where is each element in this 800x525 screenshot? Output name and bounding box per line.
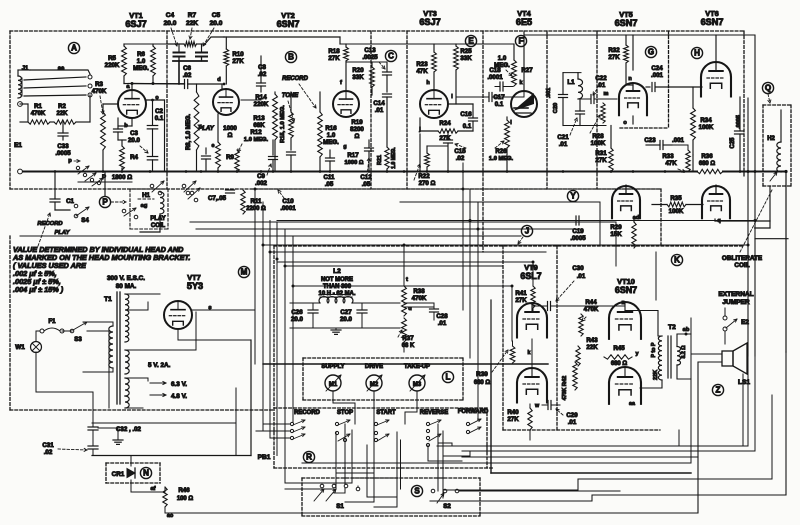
svg-text:PLAY: PLAY xyxy=(198,126,214,132)
node J xyxy=(521,225,532,236)
svg-text:C11: C11 xyxy=(324,174,336,181)
wire heavy common lower xyxy=(490,364,492,473)
svg-text:6.3 V.: 6.3 V. xyxy=(171,381,187,388)
svg-text:R17: R17 xyxy=(347,152,359,159)
tube VT7 xyxy=(164,301,192,329)
svg-text:27K: 27K xyxy=(507,416,519,423)
svg-text:FORWARD: FORWARD xyxy=(458,409,489,415)
rectifier CR1 dashed box xyxy=(106,462,160,464)
wire VT5b VT6b plates xyxy=(625,185,627,193)
svg-text:TAKE-UP: TAKE-UP xyxy=(404,364,430,370)
wire mid bus 6 xyxy=(20,235,521,237)
svg-text:C9: C9 xyxy=(257,173,265,180)
svg-text:R36: R36 xyxy=(701,153,713,160)
svg-text:27K: 27K xyxy=(439,135,451,142)
svg-text:H1: H1 xyxy=(142,192,150,199)
start contacts xyxy=(374,422,377,425)
svg-text:k: k xyxy=(528,350,531,356)
T1 4.8V winding xyxy=(125,396,129,408)
tube VT10 lower xyxy=(609,367,641,404)
wire VT7 plate leads xyxy=(126,293,160,295)
svg-text:C33: C33 xyxy=(57,143,69,150)
svg-text:C23: C23 xyxy=(644,137,656,144)
wire mid bus 8 xyxy=(270,251,546,253)
svg-text:470K: 470K xyxy=(31,111,46,117)
wire head top to contact xyxy=(18,69,30,71)
svg-text:W1: W1 xyxy=(15,344,25,351)
bottom wire 463 xyxy=(302,462,691,464)
svg-text:.01: .01 xyxy=(438,320,447,327)
svg-text:t: t xyxy=(406,277,408,283)
wire main ground bus heavy xyxy=(21,171,697,173)
svg-text:R7: R7 xyxy=(188,12,197,19)
svg-text:E: E xyxy=(468,37,474,46)
svg-text:L2: L2 xyxy=(333,268,341,275)
svg-text:i: i xyxy=(451,94,453,100)
svg-text:G: G xyxy=(648,48,654,57)
svg-text:T2: T2 xyxy=(668,324,676,331)
svg-text:.01: .01 xyxy=(597,82,606,89)
wire W1 bottom to C31 node xyxy=(36,391,93,393)
svg-text:C26: C26 xyxy=(291,309,303,316)
svg-text:C5: C5 xyxy=(212,12,221,19)
dashed box S section xyxy=(302,477,480,479)
svg-text:33K: 33K xyxy=(460,55,472,62)
svg-text:.0005: .0005 xyxy=(736,115,742,129)
wire T2 secondary leads xyxy=(677,334,691,347)
choke L2 coil xyxy=(319,297,353,303)
svg-text:C29: C29 xyxy=(566,412,578,419)
svg-text:NOT MORE: NOT MORE xyxy=(321,277,353,283)
svg-text:COIL: COIL xyxy=(151,223,166,229)
lamp W1 xyxy=(31,342,42,353)
dashed divider section A right xyxy=(166,31,168,189)
svg-text:8200: 8200 xyxy=(350,126,364,133)
svg-text:27K: 27K xyxy=(595,157,607,164)
node A xyxy=(68,42,79,53)
wire heater drop xyxy=(92,422,236,424)
wire bus to node P xyxy=(104,172,106,197)
node M xyxy=(238,266,249,277)
svg-text:N: N xyxy=(143,469,149,478)
node F xyxy=(515,35,526,46)
svg-text:R14: R14 xyxy=(255,94,267,101)
wire line cord xyxy=(35,331,37,341)
bottom wire 501 to 495 xyxy=(430,495,786,501)
svg-text:27K: 27K xyxy=(608,54,620,61)
svg-text:f: f xyxy=(340,80,342,86)
svg-text:R23: R23 xyxy=(416,61,428,68)
svg-text:.01: .01 xyxy=(559,141,568,148)
svg-text:27K: 27K xyxy=(328,55,340,62)
svg-text:R1: R1 xyxy=(34,104,42,110)
svg-text:ac: ac xyxy=(167,513,174,519)
wire right vertical bundle xyxy=(615,222,617,266)
svg-text:OBLITERATE: OBLITERATE xyxy=(722,255,762,262)
dashed K left edge xyxy=(502,246,504,430)
wire mid bus 10 xyxy=(285,265,503,267)
svg-text:0.1: 0.1 xyxy=(495,101,504,108)
svg-text:THAN 300: THAN 300 xyxy=(323,284,352,290)
capacitor at VT1 cathode xyxy=(114,128,123,130)
svg-text:g: g xyxy=(343,144,346,150)
wire T2 primary leads xyxy=(625,311,662,337)
dashed vertical M divider xyxy=(273,246,275,468)
svg-text:80 MA.: 80 MA. xyxy=(116,283,137,290)
svg-text:F: F xyxy=(519,37,524,46)
wire VT7 outputs xyxy=(178,329,251,340)
wire R1 R2 node xyxy=(20,103,28,105)
dashed divider E/F xyxy=(546,31,548,189)
svg-text:5 V. 2A.: 5 V. 2A. xyxy=(148,362,171,369)
leader obliterate to H2 xyxy=(740,190,772,252)
svg-text:R11: R11 xyxy=(251,198,263,205)
node S xyxy=(411,485,422,496)
wire plate rail to C6 xyxy=(124,83,185,85)
svg-text:1.0: 1.0 xyxy=(327,132,336,139)
S1 contact wires xyxy=(333,489,335,493)
svg-text:20.0: 20.0 xyxy=(340,316,353,323)
switch contacts below bus pair2 xyxy=(182,184,186,188)
svg-text:.0005: .0005 xyxy=(570,235,586,242)
node Z xyxy=(712,384,723,395)
svg-text:C10: C10 xyxy=(282,198,294,205)
wire mid bus 1 xyxy=(255,188,660,190)
label 6.3V arrow xyxy=(150,382,166,384)
wire mid bus 3 xyxy=(277,220,755,222)
svg-text:C27: C27 xyxy=(340,309,352,316)
svg-text:470K: 470K xyxy=(92,88,107,95)
svg-text:n: n xyxy=(628,76,632,82)
play coil dashed box xyxy=(130,188,168,190)
node Y xyxy=(567,190,578,201)
svg-text:JUMPER: JUMPER xyxy=(722,299,750,306)
capacitor C4 electrolytic xyxy=(178,44,180,51)
dashed K inner divider xyxy=(556,246,558,430)
svg-text:af: af xyxy=(150,486,155,492)
svg-text:TONE: TONE xyxy=(282,93,299,99)
wire L1 box top xyxy=(563,72,581,74)
wire VT4 plate top xyxy=(523,31,525,91)
svg-text:START: START xyxy=(376,410,396,416)
svg-text:1000: 1000 xyxy=(223,125,237,132)
svg-text:220K: 220K xyxy=(105,62,120,69)
svg-text:C21: C21 xyxy=(557,134,569,141)
svg-text:27K: 27K xyxy=(232,58,244,65)
svg-text:6SN7: 6SN7 xyxy=(615,285,637,295)
enclosure dashed bottom edge xyxy=(10,188,660,190)
svg-text:COIL: COIL xyxy=(734,262,749,269)
tube VT10 upper xyxy=(609,302,641,339)
svg-text:5Y3: 5Y3 xyxy=(187,281,203,291)
tube VT6 second half xyxy=(702,186,730,218)
dashed bottom power box xyxy=(10,409,274,411)
wire heavy feedback line xyxy=(263,363,548,365)
svg-text:R3: R3 xyxy=(95,81,103,88)
wire R46 bottom long xyxy=(164,507,166,513)
dashed box motors xyxy=(303,357,463,359)
svg-text:S: S xyxy=(414,487,420,496)
head switch contacts xyxy=(88,75,92,79)
svg-text:.0005: .0005 xyxy=(55,150,71,157)
svg-text:470K: 470K xyxy=(562,387,568,400)
svg-text:100K: 100K xyxy=(699,124,714,131)
resistor R16 record pot xyxy=(318,112,323,157)
svg-text:C22: C22 xyxy=(595,75,607,82)
svg-text:68K: 68K xyxy=(253,122,265,129)
leader note to C1 xyxy=(38,213,50,246)
svg-text:R10: R10 xyxy=(232,51,244,58)
svg-text:R: R xyxy=(306,453,312,462)
tube VT5 second half xyxy=(612,186,640,218)
svg-text:R16: R16 xyxy=(325,125,337,132)
node C xyxy=(385,50,396,61)
svg-text:CR1: CR1 xyxy=(112,471,125,478)
svg-text:C15: C15 xyxy=(454,148,466,155)
label 4.8V arrow xyxy=(150,394,166,396)
svg-text:.0025: .0025 xyxy=(362,54,378,61)
enclosure dashed left edge xyxy=(9,31,11,189)
svg-text:J1: J1 xyxy=(22,66,29,72)
capacitor C23 leads xyxy=(672,144,688,146)
svg-text:1.0 MEG.: 1.0 MEG. xyxy=(489,156,514,162)
svg-text:22K: 22K xyxy=(586,344,598,351)
dashed K bottom xyxy=(503,429,660,431)
wire rail to VT2 xyxy=(224,36,340,38)
svg-text:22K: 22K xyxy=(653,370,659,380)
svg-text:C31: C31 xyxy=(42,442,54,449)
tube VT2 first half xyxy=(213,89,239,115)
svg-text:Q: Q xyxy=(765,84,771,93)
svg-text:F1: F1 xyxy=(48,318,56,325)
svg-text:m: m xyxy=(604,91,609,97)
forward contacts xyxy=(466,422,469,425)
wire VT1 screen right xyxy=(152,76,154,84)
svg-text:K: K xyxy=(674,256,680,265)
wire speaker right xyxy=(742,374,744,446)
wire C6 to VT2 grid d xyxy=(188,83,222,85)
wire main ground bus heavy right xyxy=(723,171,786,173)
svg-text:ab: ab xyxy=(683,327,690,333)
bottom wire 490 to 479 xyxy=(444,479,772,490)
svg-text:d: d xyxy=(217,77,221,83)
node P xyxy=(99,196,110,207)
wire tie down to C6 xyxy=(178,61,180,84)
svg-text:J: J xyxy=(525,227,529,236)
node N xyxy=(140,467,151,478)
svg-text:C: C xyxy=(388,52,394,61)
svg-text:Y: Y xyxy=(570,192,576,201)
dashed divider F/G xyxy=(596,31,598,189)
svg-text:20.0: 20.0 xyxy=(164,20,177,27)
svg-text:.05: .05 xyxy=(362,181,371,188)
svg-text:20.0: 20.0 xyxy=(128,137,141,144)
wire into S1 xyxy=(285,488,315,490)
svg-text:Z: Z xyxy=(716,386,721,395)
node E xyxy=(465,35,476,46)
svg-text:aa: aa xyxy=(629,401,635,407)
svg-text:6SN7: 6SN7 xyxy=(701,17,724,27)
tube VT6 first half xyxy=(701,62,731,97)
svg-text:S4: S4 xyxy=(81,217,89,224)
svg-text:100 Ω: 100 Ω xyxy=(177,496,194,502)
diode CR1 xyxy=(127,469,135,478)
svg-text:C25: C25 xyxy=(730,137,736,149)
svg-text:o: o xyxy=(623,120,627,126)
capacitor C32 .02 xyxy=(88,426,98,428)
svg-text:R42: R42 xyxy=(562,376,568,387)
svg-text:M: M xyxy=(241,268,248,277)
node G xyxy=(645,46,656,57)
svg-text:R2: R2 xyxy=(58,104,66,110)
capacitor bypass near R9 xyxy=(205,148,207,154)
node R xyxy=(303,451,314,462)
svg-text:C16: C16 xyxy=(460,111,472,118)
svg-text:PLAY: PLAY xyxy=(54,230,70,236)
wire mid bus 9 xyxy=(277,261,533,263)
svg-text:R32: R32 xyxy=(608,47,620,54)
svg-text:S2: S2 xyxy=(443,503,451,510)
svg-text:MEG.: MEG. xyxy=(133,65,149,72)
wire node R18 bottom xyxy=(346,61,387,63)
svg-text:L1: L1 xyxy=(567,79,575,86)
svg-text:L: L xyxy=(446,373,451,382)
svg-text:.001: .001 xyxy=(651,72,664,79)
tube VT4 magic eye xyxy=(511,91,537,117)
svg-text:.0001: .0001 xyxy=(487,74,503,81)
svg-text:R39: R39 xyxy=(476,371,488,378)
svg-text:C20: C20 xyxy=(553,103,559,114)
svg-text:R24: R24 xyxy=(439,120,451,127)
bottom wire 446 xyxy=(437,445,748,447)
svg-text:REVERSE: REVERSE xyxy=(420,410,448,416)
wire right bus pair outer xyxy=(747,98,749,356)
dashed left edge lower xyxy=(9,236,11,410)
svg-text:C18: C18 xyxy=(489,67,501,74)
switch by play coil xyxy=(122,209,126,213)
switch contacts under B xyxy=(186,191,190,195)
svg-text:R12: R12 xyxy=(250,129,262,136)
wire right bus pair inner xyxy=(754,35,756,356)
svg-text:6E5: 6E5 xyxy=(516,17,532,27)
wire VT1 cathode xyxy=(131,118,133,126)
svg-text:0.1: 0.1 xyxy=(155,115,164,122)
svg-text:R21: R21 xyxy=(377,155,383,165)
dashed K box top xyxy=(274,245,744,247)
wire mid bus 4 xyxy=(190,221,616,223)
svg-text:C28: C28 xyxy=(436,313,448,320)
svg-text:.02: .02 xyxy=(456,155,465,162)
svg-text:R44: R44 xyxy=(585,299,597,306)
svg-text:47K: 47K xyxy=(665,160,677,167)
svg-text:h: h xyxy=(426,80,430,86)
relay cross wires xyxy=(336,472,374,474)
svg-text:3.2 Ω: 3.2 Ω xyxy=(681,345,687,359)
svg-text:1.0: 1.0 xyxy=(137,58,146,65)
wire to R46 xyxy=(131,491,160,493)
svg-text:R41: R41 xyxy=(515,290,527,297)
label p arrow xyxy=(74,160,80,162)
wire jumper xyxy=(724,308,726,316)
dashed divider tone column xyxy=(406,31,408,189)
svg-text:R4: R4 xyxy=(130,154,138,161)
svg-text:A: A xyxy=(71,44,77,53)
node Q xyxy=(762,82,773,93)
svg-text:1.0 MEG.: 1.0 MEG. xyxy=(244,137,269,143)
svg-text:0.1: 0.1 xyxy=(463,123,472,130)
svg-text:E1: E1 xyxy=(14,142,22,149)
terminal upper left xyxy=(18,102,23,107)
svg-text:.02: .02 xyxy=(258,71,267,78)
svg-text:R40: R40 xyxy=(507,409,519,416)
record row wires to bundle xyxy=(263,423,290,425)
svg-text:680 Ω: 680 Ω xyxy=(474,380,491,386)
capacitor C5 electrolytic xyxy=(201,44,203,51)
svg-text:C32 , .02: C32 , .02 xyxy=(116,426,142,433)
svg-text:e: e xyxy=(212,143,215,149)
T1 HV secondary xyxy=(125,294,129,342)
junction dots on ground bus xyxy=(54,170,57,173)
node K xyxy=(671,254,682,265)
wire VT1 plate to C6 xyxy=(132,83,185,86)
svg-text:PLAY: PLAY xyxy=(150,216,165,222)
capacitor C33 .0005 xyxy=(58,132,68,134)
resistor R10 27K drop xyxy=(225,37,227,49)
svg-text:6SJ7: 6SJ7 xyxy=(419,17,440,27)
svg-text:1000 Ω: 1000 Ω xyxy=(345,160,364,166)
svg-text:R5: R5 xyxy=(108,55,116,62)
svg-text:100K: 100K xyxy=(669,208,684,215)
wire filter ground rail xyxy=(290,327,400,329)
wire VT9 cathode k xyxy=(531,339,533,364)
svg-text:20.0: 20.0 xyxy=(210,20,223,27)
svg-text:470K: 470K xyxy=(412,295,427,302)
speaker LS1 xyxy=(722,351,733,366)
T1 6.3V winding xyxy=(125,378,129,396)
svg-text:220K: 220K xyxy=(254,101,269,108)
svg-text:ae: ae xyxy=(58,66,65,72)
speaker coil lines xyxy=(691,353,722,355)
svg-text:.02: .02 xyxy=(44,449,53,456)
svg-text:k: k xyxy=(519,80,523,86)
svg-text:6SN7: 6SN7 xyxy=(277,19,300,29)
switch contact cluster on bus xyxy=(76,166,79,169)
switch contacts below bus pair1 xyxy=(150,184,154,188)
resistor R35 100K xyxy=(667,202,686,207)
svg-text:R8, 1.0 MEG.: R8, 1.0 MEG. xyxy=(186,114,192,150)
svg-text:C8: C8 xyxy=(258,64,266,71)
wire VT6 plate top xyxy=(715,35,717,69)
node B xyxy=(285,51,296,62)
svg-text:1.0: 1.0 xyxy=(498,55,507,62)
svg-text:Ω: Ω xyxy=(228,132,233,139)
dashed divider C/E xyxy=(482,31,484,252)
wire VT6b cathode q xyxy=(714,219,716,221)
ground C32 xyxy=(113,439,123,441)
wire screen column xyxy=(164,100,166,172)
svg-text:C14: C14 xyxy=(373,100,385,107)
wire L1 box bottom xyxy=(563,125,606,127)
svg-text:STOP: STOP xyxy=(337,410,353,416)
tube VT1 xyxy=(118,90,146,118)
svg-text:R15, 1.0 MEG.: R15, 1.0 MEG. xyxy=(280,105,286,143)
svg-text:6SL7: 6SL7 xyxy=(520,271,541,281)
dashed box R section right xyxy=(274,407,487,409)
enclosure top amplifier section dashed top edge xyxy=(10,30,744,32)
svg-text:R9: R9 xyxy=(226,154,234,161)
svg-text:1800 Ω: 1800 Ω xyxy=(112,174,132,181)
bottom wire 451 xyxy=(462,450,755,452)
